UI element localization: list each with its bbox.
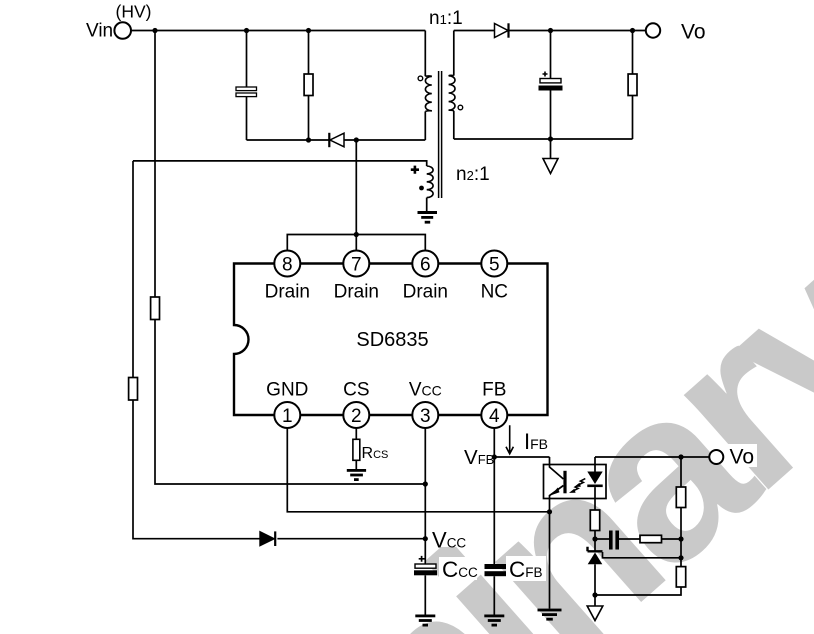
wire aux column lower: [133, 400, 425, 539]
node comp right: [678, 536, 683, 541]
diode D1 clamp (cathode left): [329, 133, 344, 147]
label VFB: [461, 447, 492, 466]
node snubber resistor tap: [306, 28, 311, 33]
node TL431 cathode: [592, 536, 597, 541]
wire secondary top rail: [454, 30, 646, 32]
wire drain bracket: [287, 140, 425, 251]
transformer T1 secondary n1 winding: [449, 31, 455, 140]
resistor R1 startup: [151, 297, 160, 320]
ground Ccc: [415, 615, 435, 627]
wire output bottom rail: [454, 138, 633, 140]
svg-text:Drain: Drain: [403, 282, 448, 303]
node startup tap: [152, 28, 157, 33]
wire divider bottom: [595, 587, 681, 595]
output terminal Vo: [646, 21, 706, 44]
ground TL431 (open triangle): [587, 595, 603, 621]
node snubber cap tap: [244, 28, 249, 33]
svg-text:n2:1: n2:1: [456, 164, 490, 185]
svg-text:6: 6: [420, 255, 431, 276]
pin 6: [403, 251, 448, 303]
svg-text:1: 1: [282, 406, 293, 427]
resistor R5 LED series: [590, 510, 599, 539]
label IFB with arrow: [506, 425, 548, 454]
svg-text:RCS: RCS: [362, 445, 389, 462]
node output cap top: [548, 28, 553, 33]
transformer T1 aux winding n2: [133, 161, 433, 211]
wire divider column: [680, 457, 682, 487]
node startup to Vcc column: [423, 481, 428, 486]
svg-text:VCC: VCC: [409, 380, 442, 401]
node divider top: [678, 454, 683, 459]
transistor Q1 TL431 shunt regulator: [588, 539, 603, 595]
pin 5: [481, 251, 508, 303]
wire TL431 ref: [603, 552, 682, 558]
wire opto emitter down: [549, 512, 551, 609]
svg-text:NC: NC: [481, 282, 508, 303]
svg-text:FB: FB: [482, 380, 506, 401]
resistor R6 compensation: [640, 535, 681, 542]
node VFB: [492, 454, 497, 459]
capacitor C4 compensation: [595, 531, 640, 550]
wire startup column upper: [154, 31, 156, 298]
node Vcc: [423, 536, 428, 541]
resistor R2 snubber: [304, 31, 313, 141]
svg-text:Drain: Drain: [334, 282, 379, 303]
pin 2: [343, 380, 369, 429]
wire aux column: [132, 161, 134, 378]
diode D3 Vcc rectifier: [260, 531, 275, 546]
optocoupler LED: [587, 457, 602, 510]
svg-text:(HV): (HV): [116, 2, 152, 22]
svg-text:Vin: Vin: [86, 21, 113, 42]
wire divider middle: [680, 508, 682, 567]
capacitor C1 snubber: [236, 31, 257, 141]
resistor R4 aux: [129, 378, 138, 401]
wire FB column: [493, 428, 495, 564]
svg-text:2: 2: [351, 406, 362, 427]
capacitor CFB: [485, 556, 547, 615]
resistor R3 output load: [628, 31, 637, 140]
wire VFB to opto collector: [494, 456, 549, 458]
op-amp U1 SD6835 IC body: [234, 264, 548, 416]
svg-text:5: 5: [489, 255, 500, 276]
node drain bracket: [354, 232, 359, 237]
optocoupler phototransistor: [550, 457, 566, 512]
node snubber-resistor rail: [306, 137, 311, 142]
svg-text:CS: CS: [343, 380, 369, 401]
node TL431 anode: [592, 592, 597, 597]
pin 8: [265, 251, 310, 303]
svg-text:SD6835: SD6835: [356, 329, 428, 351]
svg-text:3: 3: [420, 406, 431, 427]
ground Rcs: [347, 469, 366, 481]
transformer phase dot primary: [418, 76, 423, 81]
svg-text:Drain: Drain: [265, 282, 310, 303]
transformer core: [439, 71, 442, 198]
input terminal Vin: [86, 2, 151, 42]
resistor Rcs: [353, 428, 388, 469]
node output resistor top: [630, 28, 635, 33]
optocoupler U2 body: [544, 465, 607, 499]
capacitor Ccc (electrolytic): [414, 556, 478, 615]
pin 1: [266, 380, 308, 429]
ground aux winding: [418, 211, 438, 224]
label + aux polarity: [411, 166, 419, 174]
ground opto emitter: [538, 609, 562, 621]
svg-text:8: 8: [282, 255, 293, 276]
pin 3: [409, 380, 442, 429]
optocoupler light arrows: [569, 479, 585, 493]
node output cap bottom: [548, 136, 553, 141]
capacitor C2 output (electrolytic): [539, 31, 563, 140]
transformer T1 primary winding: [425, 31, 432, 141]
svg-text:7: 7: [351, 255, 362, 276]
wire Vcc column: [424, 428, 426, 564]
wire GND pin1 to opto emitter: [287, 428, 549, 512]
svg-text:Vo: Vo: [730, 446, 755, 469]
svg-text:Vo: Vo: [681, 21, 706, 44]
transformer phase dot secondary: [458, 105, 463, 110]
node opto emitter / GND: [547, 509, 552, 514]
output terminal Vo lower: [709, 444, 757, 469]
svg-text:4: 4: [489, 406, 500, 427]
transformer phase dot aux: [419, 186, 424, 191]
svg-text:GND: GND: [266, 380, 308, 401]
resistor R8 divider lower: [676, 567, 685, 587]
diode D2 output rectifier: [495, 23, 509, 37]
node drain rail: [354, 137, 359, 142]
wire startup column lower: [155, 320, 425, 485]
ground CFB: [484, 615, 504, 627]
wire snubber bottom rail: [247, 139, 426, 141]
node ref right: [678, 555, 683, 560]
svg-text:n1:1: n1:1: [429, 8, 463, 29]
wire LED to Vo: [595, 456, 709, 458]
wire top rail: [131, 30, 425, 32]
pin 7: [334, 251, 379, 303]
label Vcc node: [429, 529, 465, 547]
pin 4: [481, 380, 507, 429]
ground output (open triangle): [543, 139, 558, 174]
resistor R7 divider upper: [676, 487, 685, 508]
